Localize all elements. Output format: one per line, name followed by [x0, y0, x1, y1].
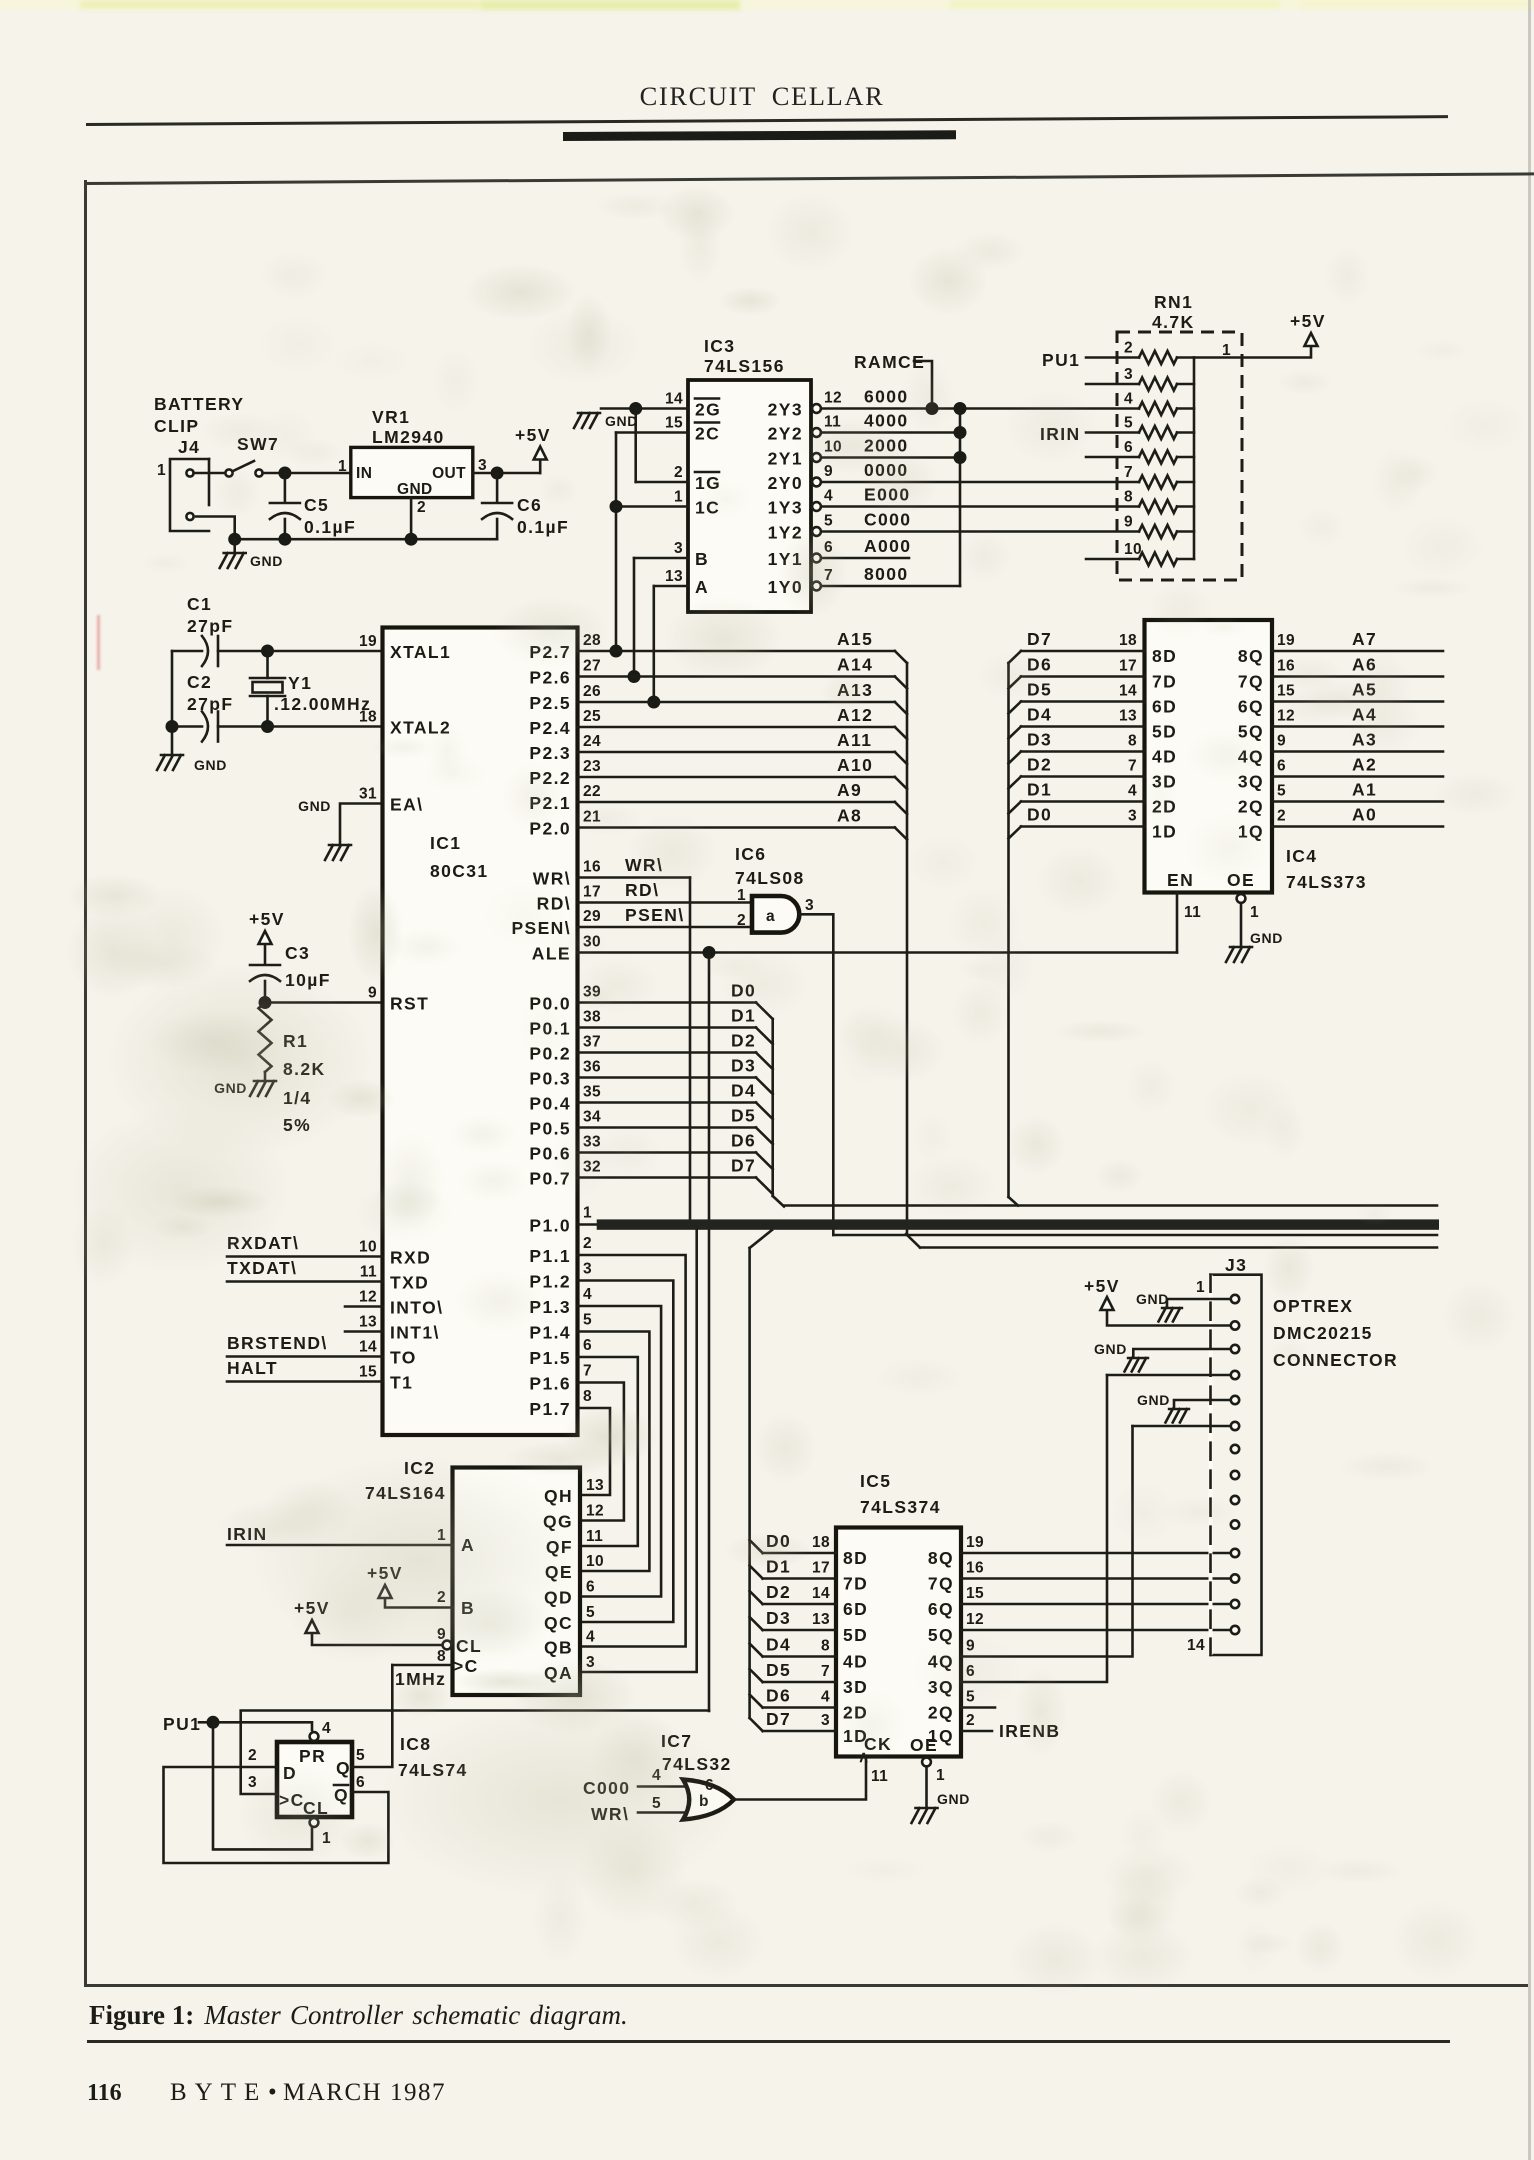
wire +5V to J3 pin 2 — [1107, 1311, 1231, 1326]
net WR\ (IC7 input) — [591, 1795, 689, 1824]
AND gate IC6 74LS08 — [735, 844, 814, 933]
wire IC5 input D1 — [750, 1557, 836, 1579]
wire +5V to IC2 CL — [312, 1634, 451, 1649]
wire XTAL1 — [268, 650, 383, 653]
ground (J3 pin 3) — [1094, 1341, 1231, 1372]
scan edge top strip — [0, 0, 1534, 10]
wire IC8 Q to 1MHz — [352, 1665, 392, 1767]
wire address line A8 — [578, 806, 908, 840]
wire IC5 2Q stub — [961, 1706, 995, 1709]
bus line (IC6 output) — [833, 1234, 1437, 1237]
ground (IC3 enable pins) — [574, 413, 638, 429]
+5V supply arrow (reset) — [249, 909, 285, 944]
+5V supply arrow (IC2 CL) — [294, 1598, 330, 1633]
wire IC4 input D5 — [1009, 680, 1145, 714]
wire address line A10 — [578, 755, 908, 789]
wire INT1 stub — [345, 1330, 383, 1333]
wire IC5 input D6 — [750, 1686, 836, 1708]
wire P1.2 to IC2 QG — [578, 1281, 674, 1623]
capacitor C3 10uF — [250, 943, 331, 1003]
shift register IC2 74LS164 — [365, 1458, 604, 1695]
wire IC4 OE to ground — [1237, 894, 1259, 945]
wire INT0 stub — [345, 1305, 383, 1308]
net PU1 (flip-flop preset) — [163, 1714, 220, 1734]
+5V supply arrow (IC2 B) — [367, 1563, 403, 1598]
wire IC5 7Q to J3 — [961, 1577, 1231, 1580]
wire VR1 OUT to +5V — [473, 460, 540, 480]
wire IC5 6Q to J3 — [961, 1603, 1231, 1606]
wire IC5 OE to ground — [922, 1758, 945, 1808]
wire IC3 2C/1C to A15 line — [610, 433, 689, 658]
wire IC3 2G/1G to ground — [601, 402, 688, 482]
wire crystal caps to ground — [166, 651, 179, 755]
footer — [87, 2079, 122, 2107]
voltage regulator VR1 LM2940 — [338, 407, 487, 516]
caption rule — [87, 2040, 1450, 2043]
wire IC4 output A3 — [1272, 730, 1443, 752]
switch SW7 — [194, 434, 280, 477]
header rule — [86, 115, 1448, 125]
wire XTAL2 — [268, 725, 383, 728]
wire WR\ to data bus bar — [578, 855, 691, 1220]
net PU1 (pull-up) — [1042, 350, 1139, 370]
latch IC5 74LS374 — [812, 1471, 984, 1766]
net C000 (IC7 input) — [583, 1767, 692, 1798]
wire IC5 input D5 — [750, 1660, 836, 1682]
wire IC3 B to A14 line — [628, 558, 689, 683]
wire address bus vertical — [906, 663, 920, 1248]
net RXDAT\ — [227, 1233, 383, 1257]
wire bus branch to IC5 data inputs — [750, 1230, 772, 1718]
net BRSTEND\ — [227, 1333, 383, 1357]
wire IC4 output A0 — [1272, 805, 1443, 827]
net IRIN (RN1 pin 5) — [1040, 424, 1139, 444]
wire data line D3 (P0.3) — [578, 1056, 773, 1095]
wire IC5 8Q to J3 — [961, 1552, 1231, 1555]
ground (R1) — [214, 1072, 276, 1096]
resistor R1 8.2K — [259, 1003, 326, 1136]
+5V supply arrow (RN1) — [1290, 311, 1326, 346]
capacitor C1 27pF — [172, 594, 268, 666]
wire IC4 input D6 — [1009, 655, 1145, 689]
wire IC4 input D2 — [1009, 755, 1145, 789]
capacitor C6 0.1uF — [482, 473, 569, 539]
wire data line D4 (P0.4) — [578, 1081, 773, 1120]
wire P1.5 to IC2 QD — [578, 1357, 638, 1546]
wire data line D1 (P0.1) — [578, 1006, 773, 1045]
wire data bus vertical (P0 side) — [773, 1019, 784, 1207]
wire IC4 input D4 — [1009, 705, 1145, 739]
wire address line A11 — [578, 730, 908, 764]
wire IC5 input D2 — [750, 1582, 836, 1604]
wire IC4 data bus vertical — [1009, 663, 1019, 1206]
wire IC3 A to A13 line — [647, 586, 688, 709]
bus line (address) — [920, 1246, 1437, 1249]
wire P1.7 to IC2 QB — [578, 1408, 611, 1495]
connector J3 OPTREX DMC20215 — [1187, 1255, 1398, 1655]
wire +5V to IC2 B — [385, 1599, 453, 1608]
ground bus wire under regulator — [196, 498, 497, 553]
wire address line A14 — [578, 655, 908, 689]
wire data line D5 (P0.5) — [578, 1106, 773, 1145]
wire IC5 input D3 — [750, 1608, 836, 1630]
wire IC5 3Q to J3 pin 4 — [961, 1375, 1107, 1682]
wire IC5 input D4 — [750, 1635, 836, 1657]
ground (IC4 OE) — [1226, 930, 1283, 962]
wire IC5 input D7 — [750, 1709, 836, 1731]
wire PU1 to IC8 CL — [213, 1722, 312, 1849]
wire IC5 4Q to J3 pin 6 — [961, 1426, 1133, 1657]
wire address line A12 — [578, 705, 908, 739]
ground (IC5 OE) — [912, 1791, 970, 1823]
wire IC3 output 2000 — [821, 436, 960, 458]
decoder IC3 74LS156 — [665, 336, 842, 612]
microcontroller IC1 80C31 — [359, 628, 601, 1436]
wire RN1 stub pins 3,6,10 — [1086, 384, 1139, 559]
wire IC5 input D0 — [750, 1531, 836, 1553]
wire address line A13 — [578, 680, 908, 714]
wire J3 pin 6 (from IC5 4Q) — [1133, 1425, 1231, 1428]
wire ALE to IC4 EN — [578, 946, 1178, 959]
header thick bar — [563, 130, 956, 140]
scan right edge — [1528, 0, 1531, 2160]
capacitor C5 0.1uF — [270, 473, 356, 539]
wire IC4 input D7 — [1009, 629, 1145, 663]
ground (battery section) — [220, 553, 283, 569]
wire IC3 output E000 — [821, 485, 1139, 507]
net IRENB (IC5 1Q) — [961, 1721, 1060, 1741]
wire SW7 to VR1 IN — [263, 467, 351, 480]
wire data line D0 (P0.0) — [578, 981, 773, 1020]
wire P1.4 to IC2 QE — [578, 1332, 650, 1572]
flip-flop IC8 74LS74 — [248, 1720, 468, 1847]
caption Figure 1 — [89, 2000, 628, 2031]
wire IC4 EN to ALE — [1177, 893, 1201, 953]
OR gate IC7 74LS32 — [661, 1731, 734, 1820]
wire J3 pin 4 (from IC5 3Q) — [1107, 1374, 1231, 1377]
net RAMCE — [854, 352, 939, 415]
ground (crystal) — [157, 755, 227, 773]
net IRIN (IC2 A input) — [227, 1524, 453, 1545]
wire IC4 output A2 — [1272, 755, 1443, 777]
wire IC3 output 0000 — [821, 460, 1139, 482]
wire IC4 output A4 — [1272, 705, 1443, 727]
battery clip J4 — [154, 394, 245, 531]
pink scanner artifact — [97, 615, 100, 670]
wire IC4 input D1 — [1009, 780, 1145, 814]
wire IC4 output A5 — [1272, 680, 1443, 702]
wire IC4 output A1 — [1272, 780, 1443, 802]
wire P1.1 to IC2 QH — [578, 1255, 686, 1647]
net HALT — [227, 1358, 383, 1382]
wire IC4 input D0 — [1009, 805, 1145, 839]
ground (EA pin) — [298, 798, 382, 860]
wire RD\ to IC6 — [578, 880, 753, 903]
wire RAMCE tie vertical (6000/4000/2000/8000) — [954, 402, 967, 586]
wire data line D6 (P0.6) — [578, 1131, 773, 1170]
wire IC4 output A6 — [1272, 655, 1443, 677]
wire address line A9 — [578, 780, 908, 814]
wire IC8 Qbar to D feedback — [164, 1767, 389, 1863]
bus bar (thick data/P1.0 bus) — [578, 1219, 1440, 1229]
net 1MHz (IC2 clock) — [392, 1665, 452, 1689]
wire bus bar to IC2 QA — [580, 1230, 697, 1673]
wire ALE vertical to 1MHz row — [708, 953, 711, 1712]
capacitor C2 27pF — [172, 672, 274, 742]
wire data line D2 (P0.2) — [578, 1031, 773, 1070]
latch IC4 74LS373 — [1119, 620, 1367, 893]
wire RN1 pin1 to +5V — [1194, 347, 1311, 358]
wire IC3 output 6000 — [821, 387, 1139, 409]
crystal Y1 12.00MHz — [250, 645, 371, 727]
wire IC7 output to IC5 CK — [733, 1757, 888, 1800]
wire IC3 output 8000 — [821, 564, 960, 586]
ground (J3 pin 1) — [1136, 1291, 1231, 1322]
net TXDAT\ — [227, 1258, 383, 1282]
title CIRCUIT CELLAR — [0, 81, 1524, 112]
resistor network RN1 4.7K — [1117, 292, 1242, 580]
+5V supply arrow (J3 pin 2) — [1084, 1276, 1120, 1310]
wire P1.6 to IC2 QC — [578, 1383, 624, 1521]
wire IC4 input D3 — [1009, 730, 1145, 764]
wire IC5 5Q to J3 — [961, 1629, 1231, 1632]
wire IC3 output C000 — [821, 510, 1139, 532]
wire IC8 clock tie (ALE row) — [241, 1711, 709, 1795]
ground (J3 pin 5) — [1137, 1392, 1231, 1423]
wire IC3 output A000 — [821, 536, 911, 558]
wire IC6 output to bus — [800, 914, 834, 1235]
wire PSEN\ to IC6 — [578, 905, 753, 927]
wire RST — [259, 996, 383, 1009]
wire P1.3 to IC2 QF — [578, 1306, 662, 1597]
wire IC3 output 4000 — [821, 411, 960, 433]
bus line D (thin) — [784, 1204, 1437, 1207]
wire address line A15 — [578, 629, 908, 663]
wire data line D7 (P0.7) — [578, 1156, 773, 1195]
figure frame — [84, 172, 1534, 184]
wire PU1 to IC8 PR — [213, 1722, 312, 1730]
wire IC4 output A7 — [1272, 629, 1443, 651]
+5V supply arrow (regulator output) — [515, 425, 551, 460]
